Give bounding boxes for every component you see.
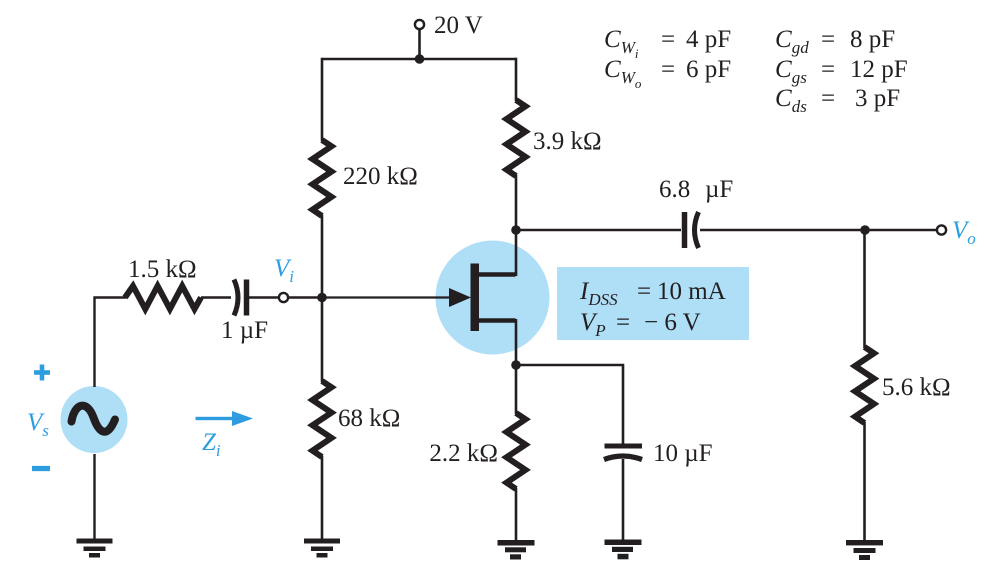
wire: 68k to ground — [321, 456, 324, 539]
ground: load branch — [846, 540, 883, 560]
label plus — [34, 365, 50, 381]
resistor 68 k — [313, 381, 332, 457]
wire: Vs up to input rail — [95, 298, 127, 388]
transistor JFET source lead — [476, 318, 516, 322]
svg-text:68 kΩ: 68 kΩ — [338, 405, 400, 432]
resistor 1.5 k — [125, 286, 201, 309]
source Vs highlight circle — [61, 386, 128, 453]
svg-text:20 V: 20 V — [434, 12, 483, 39]
capacitor 10 uF top plate — [605, 444, 643, 449]
svg-text:1 µF: 1 µF — [221, 317, 268, 344]
wire: cap to Vi — [249, 296, 278, 298]
resistor 3.9 k — [507, 100, 526, 176]
wire: input node down to 68k — [321, 298, 324, 383]
wire: 5.6k to ground — [863, 422, 866, 541]
wire: 220k to input node — [321, 215, 324, 298]
svg-text:5.6 kΩ: 5.6 kΩ — [882, 374, 951, 401]
wire: gate — [322, 296, 452, 298]
parameter box IDSS VP — [557, 267, 749, 340]
junction: supply node — [415, 54, 425, 64]
node: 20 V supply terminal — [415, 20, 424, 29]
transistor JFET highlight circle — [436, 241, 550, 355]
wire: 10uF to ground — [622, 459, 625, 540]
wire: Vi to input node — [289, 296, 322, 298]
ground: source resistor — [498, 540, 535, 560]
wire: source node down — [515, 365, 518, 414]
wire: output node to 5.6k — [863, 230, 866, 348]
label minus — [32, 466, 50, 471]
resistor 5.6 k — [855, 347, 874, 423]
node: Vi terminal — [279, 293, 288, 302]
transistor JFET drain lead — [476, 272, 516, 276]
ground: bypass cap — [605, 540, 642, 560]
resistor 2.2 k — [507, 413, 526, 489]
svg-text:220 kΩ: 220 kΩ — [343, 163, 418, 190]
wire: resistor to cap — [201, 296, 231, 298]
wire: source lead to source node — [515, 319, 518, 365]
junction: input node — [317, 293, 327, 303]
svg-text:10 µF: 10 µF — [653, 440, 713, 467]
source Vs sine wave — [72, 406, 116, 432]
ground: divider branch — [304, 539, 340, 558]
junction: source node — [511, 360, 521, 370]
svg-text:3.9 kΩ: 3.9 kΩ — [533, 128, 602, 155]
wire: 2.2k to ground — [515, 488, 518, 540]
wire: source node to bypass cap — [516, 365, 623, 444]
wire: drain lead to drain node — [515, 230, 518, 276]
svg-text:2.2 kΩ: 2.2 kΩ — [429, 440, 498, 467]
wire: output rail left — [516, 229, 681, 232]
junction: drain node — [511, 225, 521, 235]
transistor JFET gate arrow — [449, 288, 471, 307]
node: Vo terminal — [937, 225, 946, 234]
capacitor 1 uF curved plate — [234, 280, 238, 316]
capacitor 6.8 uF plate curved — [695, 212, 699, 248]
capacitor 10 uF curved plate — [604, 456, 642, 460]
capacitor 6.8 uF plate straight — [682, 212, 688, 248]
resistor 220 k — [313, 140, 332, 216]
wire: 3.9k to drain node — [515, 175, 518, 230]
wire: left rail upper — [321, 58, 324, 141]
wire: supply stub — [418, 30, 421, 60]
transistor JFET channel bar — [471, 264, 480, 332]
ground: source Vs — [77, 539, 113, 558]
junction: output node — [860, 225, 870, 235]
capacitor 1 uF straight plate — [244, 280, 250, 316]
wire: output rail right — [700, 229, 936, 232]
wire: Vs down to ground — [93, 454, 95, 539]
arrow Zi — [196, 411, 254, 426]
svg-text:1.5 kΩ: 1.5 kΩ — [128, 256, 197, 283]
wire: right rail upper — [515, 58, 518, 101]
wire: top rail — [322, 58, 516, 61]
